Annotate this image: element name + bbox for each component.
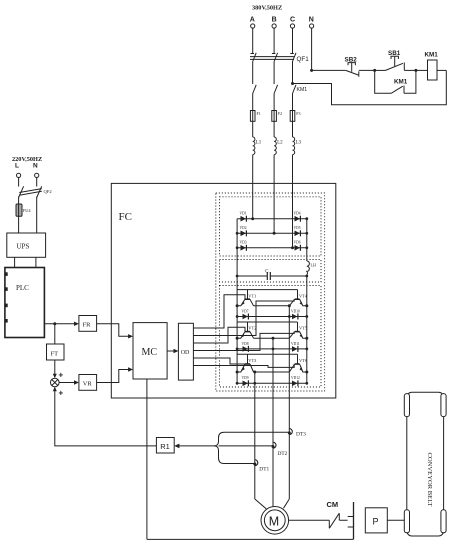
svg-text:VR: VR (83, 381, 93, 388)
inductor L1 (253, 137, 255, 155)
wire L QF2 to fuse (18, 197, 20, 205)
svg-text:VD5: VD5 (294, 226, 301, 230)
belt roller top-right (441, 394, 446, 417)
svg-text:DT3: DT3 (296, 431, 306, 437)
svg-text:VT3: VT3 (248, 358, 257, 363)
svg-text:380V,50HZ: 380V,50HZ (252, 5, 282, 12)
wire B KM1 to fuse F2 (273, 94, 275, 111)
terminal N circle (35, 173, 39, 177)
block P sensor (365, 508, 387, 533)
breaker QF1 blade C (290, 53, 296, 62)
svg-text:C: C (265, 270, 268, 275)
wire VR to MC (97, 370, 129, 383)
svg-text:MC: MC (142, 347, 158, 358)
wire C QF1 to KM1 (292, 62, 294, 85)
svg-text:CM: CM (327, 500, 339, 509)
terminal B circle (272, 24, 276, 28)
breaker QF2 blade N (37, 186, 42, 197)
transistor VT5 (297, 322, 299, 332)
breaker QF2 linkage double bar (19, 189, 42, 196)
diode VD6 (295, 245, 301, 251)
wire OD to VT6 gate (193, 364, 294, 367)
node output A tap (253, 371, 256, 374)
dashed inverter box (220, 286, 322, 388)
wire output C bend to motor (284, 499, 290, 508)
node B on row2 (273, 232, 276, 235)
fuse FU4 (16, 204, 22, 216)
diode VD8 (243, 346, 249, 352)
svg-text:QF1: QF1 (297, 56, 310, 63)
bus junction dots rows (305, 217, 308, 220)
svg-text:KM1: KM1 (425, 52, 439, 59)
arrow into FR (74, 322, 79, 326)
svg-text:F2: F2 (278, 111, 282, 116)
emitter link row2 (254, 337, 290, 339)
arrow into R1 (174, 444, 179, 449)
wire L fuse to UPS (18, 216, 20, 233)
freewheel diode row 2 wire (237, 348, 307, 350)
svg-text:F3: F3 (296, 111, 300, 116)
diode VD9 (243, 381, 249, 387)
wire B fuse to L2 (273, 121, 275, 137)
diode VD10 (292, 314, 298, 320)
svg-text:VT6: VT6 (299, 358, 308, 363)
node tap phase C to control (291, 82, 294, 85)
wire motor to CM (289, 519, 330, 521)
coil KM1 (428, 60, 438, 80)
svg-text:FT: FT (51, 350, 59, 357)
svg-text:B: B (272, 17, 277, 24)
wire FR to MC (97, 324, 129, 337)
wire P to belt (387, 519, 407, 521)
wire OD to VT3 gate (193, 358, 245, 364)
wire FT input (54, 324, 56, 344)
emitter link row1 (254, 305, 290, 307)
wire control rail to SB2 (312, 69, 346, 71)
node SB2/SB1 junction (373, 69, 376, 72)
svg-text:R1: R1 (160, 442, 170, 451)
arrow into summing top (53, 374, 57, 378)
contactor KM1 blade C (293, 85, 297, 94)
node N to control rail (310, 69, 313, 72)
tap wire DT3 (224, 431, 289, 433)
shaft mount bar (353, 502, 355, 539)
dashed outer converter box (216, 193, 325, 391)
wire SB2 to node (359, 69, 375, 71)
block FT (47, 344, 65, 360)
node PLC/FT junction (53, 322, 56, 325)
terminal C circle (290, 24, 294, 28)
svg-text:VD11: VD11 (291, 342, 300, 346)
wire phase A to QF1 (252, 28, 254, 53)
arrow into OD (174, 349, 179, 353)
block PLC (5, 268, 45, 338)
svg-text:VD3: VD3 (240, 241, 247, 245)
belt roller top-left (404, 394, 409, 417)
diode VD4 (295, 216, 301, 222)
wire A QF1 to KM1 (252, 62, 254, 85)
wire L down to QF2 (18, 178, 20, 187)
terminal L circle (17, 173, 21, 177)
svg-text:L3: L3 (296, 141, 302, 146)
wire B L2 to FC (273, 155, 275, 234)
nodes diode row2 (236, 348, 239, 351)
contactor KM1 blade B (274, 85, 278, 94)
wire OD to VT5 gate (193, 332, 294, 351)
arrow into summing bottom (53, 387, 57, 391)
collector rail row3 (237, 353, 297, 355)
terminal N circle (310, 24, 314, 28)
node C on row3 (291, 246, 294, 249)
diode VD3 (241, 245, 247, 251)
svg-text:OD: OD (181, 350, 190, 356)
current sensor DT1 (255, 460, 258, 466)
svg-text:UPS: UPS (17, 242, 30, 250)
node output C tap (288, 304, 291, 307)
diode VD2 (241, 231, 247, 237)
dashed rectifier box (220, 197, 322, 256)
wire coil to right (437, 69, 446, 71)
block R1 (156, 438, 174, 454)
breaker QF2 blade L (19, 186, 24, 197)
transistor VT2 (247, 322, 249, 332)
svg-text:VT1: VT1 (248, 293, 256, 298)
current sensor DT2 (273, 442, 276, 448)
DC bus right upper (306, 219, 308, 261)
svg-text:M: M (269, 514, 279, 528)
wire C KM1 to fuse F3 (292, 94, 294, 111)
svg-text:VD8: VD8 (242, 342, 249, 346)
wire UPS to PLC left (14, 257, 16, 267)
wire PLC to FR (44, 323, 75, 325)
transistor VT3 (247, 354, 249, 364)
fuse F3 (290, 111, 295, 122)
diode VD5 (295, 231, 301, 237)
wire R1 to feedback riser (55, 388, 157, 446)
svg-text:C: C (290, 17, 295, 24)
wire brace to R1 (179, 445, 215, 447)
conveyor belt body (407, 392, 444, 536)
node SB1/coil junction (414, 69, 417, 72)
block FR (79, 316, 97, 332)
rectifier row 3 wire (237, 247, 307, 249)
wire FT to summing (54, 360, 56, 377)
capacitor C (267, 272, 270, 280)
nodes diode row1 (236, 315, 239, 318)
inductor L2 (274, 137, 276, 155)
brace collector (214, 432, 224, 463)
fuse F1 (250, 111, 255, 122)
wire OD to VT2 gate (193, 327, 245, 343)
svg-text:DT1: DT1 (259, 467, 269, 473)
wire OD to VT1 gate (193, 295, 245, 328)
arrow into VR (74, 380, 79, 384)
diode VD11 (292, 346, 298, 352)
svg-text:VT4: VT4 (299, 293, 308, 298)
wire output A bend to motor (255, 499, 266, 509)
arrow VR into MC (128, 367, 133, 371)
node dc left (236, 275, 239, 278)
svg-text:P: P (373, 517, 379, 527)
svg-text:VD4: VD4 (294, 212, 301, 216)
wire N down to QF2 (36, 178, 38, 187)
wire A KM1 to fuse F1 (252, 94, 254, 111)
freewheel diode row 3 wire (237, 382, 307, 384)
PLC terminal tick 4 (5, 319, 8, 323)
motor M outer (261, 507, 289, 535)
wire C fuse to L3 (292, 121, 294, 137)
pushbutton SB2 (NC) (346, 63, 359, 77)
svg-text:VD9: VD9 (242, 376, 249, 380)
svg-text:L: L (15, 163, 19, 170)
diode VD12 (292, 381, 298, 387)
wire OD to VT4 gate (193, 299, 294, 335)
svg-text:VD10: VD10 (291, 309, 300, 313)
freewheel diode row 1 wire (237, 316, 307, 318)
wire output A down (254, 372, 256, 499)
inductor L3 (293, 137, 295, 155)
svg-text:VD6: VD6 (294, 241, 301, 245)
svg-text:VT2: VT2 (248, 326, 256, 331)
node VT4 to bus (305, 304, 308, 307)
block FC frame (111, 183, 335, 398)
wire node2 to coil (416, 69, 428, 71)
PLC terminal tick 2 (5, 287, 8, 291)
motor M inner (264, 510, 285, 531)
svg-text:PLC: PLC (16, 284, 29, 292)
wire phase B to QF1 (273, 28, 275, 53)
transistor VT1 (247, 290, 249, 300)
breaker QF1 blade B (272, 53, 278, 62)
node VT1 emitter to bus (236, 304, 239, 307)
wire SB1 to node2 (404, 69, 416, 71)
arrow FR into MC (128, 334, 133, 338)
belt roller bottom-left (404, 510, 409, 533)
wire MC to OD (167, 350, 174, 352)
transistor VT4 (297, 290, 299, 300)
pushbutton SB1 (NO) (386, 56, 405, 70)
svg-text:FC: FC (119, 211, 132, 223)
wire control return (293, 70, 447, 104)
PLC terminal tick 3 (5, 304, 8, 308)
diode VD7 (243, 314, 249, 320)
current sensor DT3 (289, 429, 292, 435)
transistor VT6 (297, 354, 299, 364)
svg-text:F1: F1 (257, 111, 261, 116)
DC bus right lower (306, 275, 308, 384)
svg-text:KM1: KM1 (394, 79, 408, 86)
node output B tap (272, 337, 275, 340)
breaker QF1 blade A (251, 53, 257, 62)
wire N down to UPS (36, 197, 38, 234)
contact KM1 aux branch (NO) (375, 70, 416, 93)
svg-text:CONVEYOR BELT: CONVEYOR BELT (426, 453, 433, 507)
emitter link row3 (254, 371, 290, 373)
summing junction (51, 378, 60, 387)
nodes diode row3 (236, 382, 239, 385)
svg-text:VD2: VD2 (240, 226, 247, 230)
collector rail row2 (237, 321, 297, 323)
svg-text:DT2: DT2 (278, 451, 288, 457)
svg-text:A: A (250, 17, 255, 24)
shaft mount tick 2 (348, 526, 354, 528)
coupling CM (329, 513, 347, 528)
reactor LH on right bus (307, 261, 310, 275)
svg-text:+: + (59, 371, 64, 380)
node A on row1 (251, 217, 254, 220)
terminal A circle (251, 24, 255, 28)
diode VD1 (241, 216, 247, 222)
wire N down (311, 28, 313, 70)
svg-text:LH: LH (311, 263, 316, 268)
wire UPS to PLC right (35, 257, 37, 267)
svg-text:QF2: QF2 (44, 189, 53, 194)
dashed dc-link box (220, 260, 322, 283)
rectifier row 2 wire (237, 232, 307, 234)
shaft mount tick 1 (348, 516, 354, 518)
wire output C down (288, 306, 290, 499)
block OD (178, 323, 193, 380)
svg-text:VD1: VD1 (240, 212, 247, 216)
wire summing to VR (59, 382, 75, 384)
svg-text:KM1: KM1 (297, 87, 308, 93)
DC bus left (236, 219, 238, 384)
wire output B down (272, 338, 274, 506)
svg-text:FU4: FU4 (23, 208, 32, 213)
svg-text:L1: L1 (256, 141, 262, 146)
dc link wire left (237, 275, 267, 277)
wire C L3 to FC (292, 155, 294, 248)
wire A L1 to FC (252, 155, 254, 219)
svg-text:VT5: VT5 (299, 326, 308, 331)
svg-text:N: N (33, 163, 38, 170)
rectifier row 1 wire (237, 218, 307, 220)
svg-text:VD7: VD7 (242, 309, 249, 313)
tap wire DT2 (219, 445, 274, 447)
svg-text:+: + (59, 389, 64, 398)
breaker QF1 linkage double bar (250, 57, 294, 60)
tap wire DT1 (224, 463, 255, 465)
fuse F2 (272, 111, 277, 122)
wire B QF1 to KM1 (273, 62, 275, 85)
svg-text:VD12: VD12 (291, 376, 300, 380)
bottom feedback rail (147, 538, 354, 540)
collector rail row1 (237, 289, 297, 291)
svg-text:FR: FR (83, 322, 92, 329)
block UPS (7, 233, 46, 257)
contactor KM1 blade A (253, 85, 257, 94)
svg-text:N: N (309, 17, 314, 24)
block MC (133, 323, 167, 379)
wire A fuse to L1 (252, 121, 254, 137)
wire node to SB1 (375, 69, 386, 71)
dc link wire right (270, 275, 307, 277)
belt roller bottom-right (441, 510, 446, 533)
svg-text:L2: L2 (277, 141, 283, 146)
wire MC bottom drop (146, 379, 148, 539)
PLC terminal tick 1 (5, 272, 8, 276)
wire phase C to QF1 (292, 28, 294, 53)
node dc right (305, 275, 308, 278)
block VR (79, 375, 97, 391)
